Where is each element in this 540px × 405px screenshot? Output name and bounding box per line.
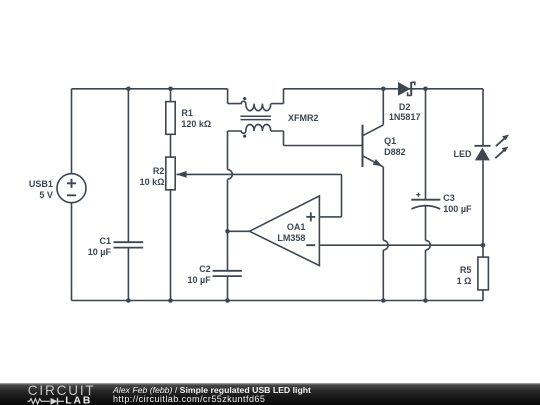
- svg-text:LAB: LAB: [65, 395, 92, 405]
